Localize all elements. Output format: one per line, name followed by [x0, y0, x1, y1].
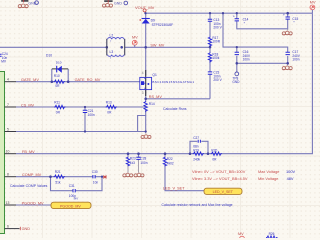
svg-text:RS_MV: RS_MV — [149, 95, 163, 99]
svg-text:0R: 0R — [56, 111, 61, 115]
resistor R22 (vertical) — [163, 157, 174, 167]
node COMP left — [49, 175, 52, 178]
svg-text:Max Voltage: Max Voltage — [258, 169, 279, 174]
wire MV right bus and FB line y=153.7 — [16, 13, 312, 154]
svg-text:CS_MV: CS_MV — [21, 103, 35, 107]
svg-text:5: 5 — [7, 127, 9, 131]
svg-text:100n: 100n — [243, 58, 250, 62]
diode D10 — [46, 54, 62, 73]
svg-text:100k: 100k — [212, 56, 219, 60]
svg-text:R20: R20 — [211, 148, 217, 152]
svg-text:7: 7 — [7, 103, 9, 107]
node C14 top — [236, 12, 238, 14]
svg-text:100V: 100V — [286, 169, 295, 174]
svg-text:PGOOD_MV: PGOOD_MV — [60, 204, 81, 208]
node gate loop left — [51, 80, 54, 83]
svg-text:1k3: 1k3 — [130, 161, 135, 165]
svg-text:L2: L2 — [110, 34, 114, 38]
capacitor C15 (polarized) — [283, 13, 298, 25]
capacitor C30 — [92, 170, 99, 184]
svg-text:C28: C28 — [140, 156, 146, 160]
node C17 ground — [286, 62, 289, 65]
node gate loop right — [67, 80, 70, 83]
svg-text:100n: 100n — [140, 161, 147, 165]
wire input line y=47.3 left segment — [0, 46, 107, 48]
pin 7 stub — [5, 106, 17, 108]
wire C14 C15 bottom line y=28.8 — [237, 19, 288, 28]
node R22 top — [164, 152, 167, 155]
wire PGOOD line — [16, 204, 51, 206]
wire C16 stub — [236, 47, 238, 63]
svg-text:240k: 240k — [193, 157, 200, 161]
svg-text:4k02: 4k02 — [167, 161, 174, 165]
wire COMP line — [16, 176, 103, 178]
resistor R20 — [211, 148, 223, 161]
svg-text:STPS2150U8F: STPS2150U8F — [152, 23, 173, 27]
wire VOUT cap branch from y=13 down to y=47 and right — [223, 13, 288, 52]
node L right — [120, 46, 123, 49]
wire VOUT rail y=13 — [145, 12, 312, 14]
node L left — [106, 46, 109, 49]
svg-text:D10: D10 — [56, 60, 62, 64]
svg-text:0R: 0R — [212, 157, 217, 161]
pin numbers — [6, 78, 10, 229]
svg-text:Vline= 0V --> VOUT_BB=100V: Vline= 0V --> VOUT_BB=100V — [192, 169, 246, 174]
svg-text:200 V: 200 V — [213, 78, 222, 82]
wire R14 lower branch — [138, 116, 146, 132]
svg-text:0R: 0R — [107, 111, 112, 115]
svg-text:D9: D9 — [151, 19, 155, 23]
capacitor C31 — [69, 184, 76, 198]
wire snubber column x=210 — [209, 13, 211, 99]
wire R23 stub — [127, 154, 129, 157]
svg-text:10: 10 — [6, 150, 10, 154]
wire stub to ground under C28 — [138, 160, 140, 173]
node COMP right — [101, 176, 103, 178]
pin 8 stub — [5, 176, 17, 178]
svg-text:51k: 51k — [55, 180, 61, 184]
svg-text:GND: GND — [232, 80, 240, 84]
node R23 top — [127, 152, 130, 155]
wire C28 stub — [138, 154, 140, 157]
wire gate line y=81.7 — [16, 81, 140, 83]
resistor R21 — [54, 170, 66, 184]
svg-text:4: 4 — [142, 71, 144, 75]
svg-text:D10: D10 — [46, 54, 52, 58]
port LED_V_SET yellow — [204, 188, 242, 194]
capacitor C21 — [83, 109, 95, 117]
node C28 top — [137, 152, 140, 155]
net label GND at pin 6 — [20, 227, 30, 231]
ground under C28 — [134, 173, 144, 177]
wire C27 loop — [190, 141, 208, 153]
wire pin5 line y=131.5 — [16, 131, 146, 133]
svg-text:R22: R22 — [167, 157, 173, 161]
top edge cut wire and GND text cluster 2 — [104, 0, 127, 6]
node SW at drain column — [144, 46, 147, 49]
node snubber mid — [209, 46, 212, 49]
node C15 top — [286, 12, 289, 15]
top edge cut wire and GND text cluster 1 — [21, 0, 38, 5]
bottom cut power port MV — [238, 232, 244, 240]
node C27 right — [207, 152, 210, 155]
capacitor C13 — [208, 18, 223, 30]
svg-text:3: 3 — [142, 91, 144, 95]
power port MV at SW line — [132, 36, 138, 48]
svg-text:R13: R13 — [106, 101, 112, 105]
wire C31 loop — [51, 177, 103, 191]
capacitor C23 — [208, 71, 223, 83]
svg-text:MV: MV — [74, 197, 79, 201]
svg-text:SW_MV: SW_MV — [150, 43, 164, 47]
diode D9 — [140, 19, 173, 28]
pin 6 stub — [5, 228, 20, 230]
svg-text:R19: R19 — [193, 148, 199, 152]
port PGOOD_MV yellow — [51, 202, 91, 208]
svg-text:48V: 48V — [287, 176, 294, 181]
svg-text:Min Voltage: Min Voltage — [258, 176, 278, 181]
wire stub to ground under R23 — [127, 165, 129, 173]
svg-text:R10: R10 — [54, 74, 60, 78]
node C16 branch top — [222, 12, 224, 14]
ground stub segments (grey) — [128, 29, 288, 173]
node TP junction — [236, 62, 239, 65]
node snubber top — [209, 12, 211, 14]
svg-text:C31: C31 — [69, 184, 75, 188]
resistor R17 (vertical) — [208, 36, 220, 47]
wire C16 C17 bottom line y=63.3 — [237, 56, 288, 63]
pin 13 stub — [5, 204, 17, 206]
resistor R18 (vertical) — [208, 52, 219, 63]
ground top-mid cluster — [103, 3, 113, 7]
mosfet Q1 — [140, 70, 195, 96]
svg-text:R21: R21 — [55, 170, 61, 174]
node C27 left — [189, 152, 192, 155]
capacitor C24 fragment at left edge — [0, 52, 8, 64]
resistor R11 — [54, 101, 66, 115]
node VOUT/diode junction — [144, 12, 146, 14]
ground under C17 — [282, 66, 292, 70]
svg-text:Vline= 3.3V --> VOUT_BB=4.5V: Vline= 3.3V --> VOUT_BB=4.5V — [192, 176, 248, 181]
svg-text:200 V: 200 V — [213, 26, 222, 30]
svg-text:Calculate Rsns: Calculate Rsns — [163, 107, 187, 111]
svg-text:PGOOD_MV: PGOOD_MV — [22, 201, 44, 205]
wire D10 loop top bar (diode leads) — [52, 68, 68, 70]
svg-text:8: 8 — [7, 173, 9, 177]
svg-text:GND: GND — [22, 227, 31, 231]
wire RS sense line y=98.8 — [146, 98, 210, 100]
pin 4 stub — [5, 81, 17, 83]
wire VOUT_MV port stub and diode column — [144, 12, 147, 76]
svg-text:GATE_RO_MV: GATE_RO_MV — [75, 78, 101, 82]
svg-text:COMP_MV: COMP_MV — [22, 173, 42, 177]
ground under Q1 column — [141, 135, 151, 139]
svg-text:R14: R14 — [149, 102, 155, 106]
svg-text:BSC190N15NS3GATMA1: BSC190N15NS3GATMA1 — [152, 80, 194, 84]
svg-text:MV: MV — [310, 0, 316, 4]
wire D10 R10 loop sides — [52, 69, 68, 82]
ground top-left cluster — [18, 4, 28, 8]
svg-text:10n: 10n — [93, 180, 99, 184]
resistor R10 — [54, 74, 66, 88]
resistor R13 — [106, 101, 118, 115]
svg-text:Calculate resistor network and: Calculate resistor network and Max line … — [162, 203, 233, 207]
svg-text:GND: GND — [28, 1, 36, 5]
wire SW segment y=47.3 — [125, 46, 210, 48]
svg-text:GND: GND — [114, 2, 122, 6]
resistor R14 (vertical) — [144, 101, 155, 113]
wire C21 column — [84, 107, 86, 132]
svg-text:100R: 100R — [212, 40, 220, 44]
node RS junction — [144, 98, 147, 101]
node line5 end — [145, 130, 147, 132]
pin 10 stub — [5, 153, 17, 155]
svg-text:R11: R11 — [54, 101, 60, 105]
svg-text:Calculate COMP Values: Calculate COMP Values — [10, 184, 48, 188]
svg-text:C27: C27 — [193, 136, 199, 140]
power port MV top right — [310, 0, 316, 13]
inductor L2 L3 coupled pair — [107, 34, 125, 61]
svg-text:MV: MV — [132, 36, 138, 40]
test point TP8 — [232, 72, 240, 84]
svg-text:13: 13 — [6, 201, 10, 205]
wire stub to ground under C15 — [287, 29, 289, 31]
svg-text:FB_MV: FB_MV — [22, 150, 35, 154]
capacitor C28 — [136, 156, 147, 164]
wire C14 top stub — [236, 13, 238, 18]
capacitor C14 (polarized) — [233, 14, 249, 25]
svg-text:VOUT_MV: VOUT_MV — [135, 5, 155, 10]
ground under C15 — [282, 31, 292, 35]
svg-text:L3: L3 — [110, 50, 114, 54]
svg-text:LED_V_SET: LED_V_SET — [213, 190, 234, 194]
svg-text:GATE_MV: GATE_MV — [21, 78, 39, 82]
wire CS line y=107 — [16, 106, 146, 108]
svg-text:6: 6 — [7, 225, 9, 229]
svg-text:100n: 100n — [88, 113, 95, 117]
wire stub to ground under C17 line — [287, 63, 289, 65]
svg-text:C30: C30 — [92, 170, 98, 174]
wire C15 top stub — [287, 13, 289, 17]
no-ERC marker red cross — [103, 175, 107, 178]
ground under R23 — [123, 173, 133, 177]
capacitor C17 — [286, 50, 301, 62]
wire TP8 stub — [236, 63, 238, 72]
node CS at C21 — [84, 106, 86, 108]
svg-text:+: + — [283, 13, 285, 17]
wire stub to ground under Q1 column — [145, 132, 147, 134]
svg-text:R23: R23 — [130, 156, 136, 160]
ground symbols (earth curly, brown) — [18, 3, 292, 177]
wire MOSFET source column — [145, 90, 147, 132]
svg-text:LED_V_SET: LED_V_SET — [163, 186, 185, 190]
bottom cut resistor R26 — [266, 232, 278, 239]
svg-text:+: + — [233, 14, 235, 18]
power port VOUT_MV — [135, 5, 155, 12]
pin 5 stub — [5, 131, 17, 133]
svg-text:Q1: Q1 — [152, 73, 157, 77]
resistor R23 (vertical) — [126, 156, 136, 166]
wire R22 stub and LED_V_SET run — [165, 154, 204, 191]
connector J green body — [0, 72, 5, 234]
svg-text:MV: MV — [238, 232, 244, 236]
svg-text:4: 4 — [7, 78, 9, 82]
node C21 bottom — [84, 130, 86, 132]
connector pin stubs — [5, 69, 69, 229]
capacitor C16 — [235, 50, 251, 62]
resistor R19 — [193, 148, 205, 161]
capacitor C27 — [193, 136, 200, 148]
svg-text:100n: 100n — [292, 58, 299, 62]
svg-text:0R: 0R — [55, 84, 60, 88]
node C16 mid — [236, 46, 238, 48]
